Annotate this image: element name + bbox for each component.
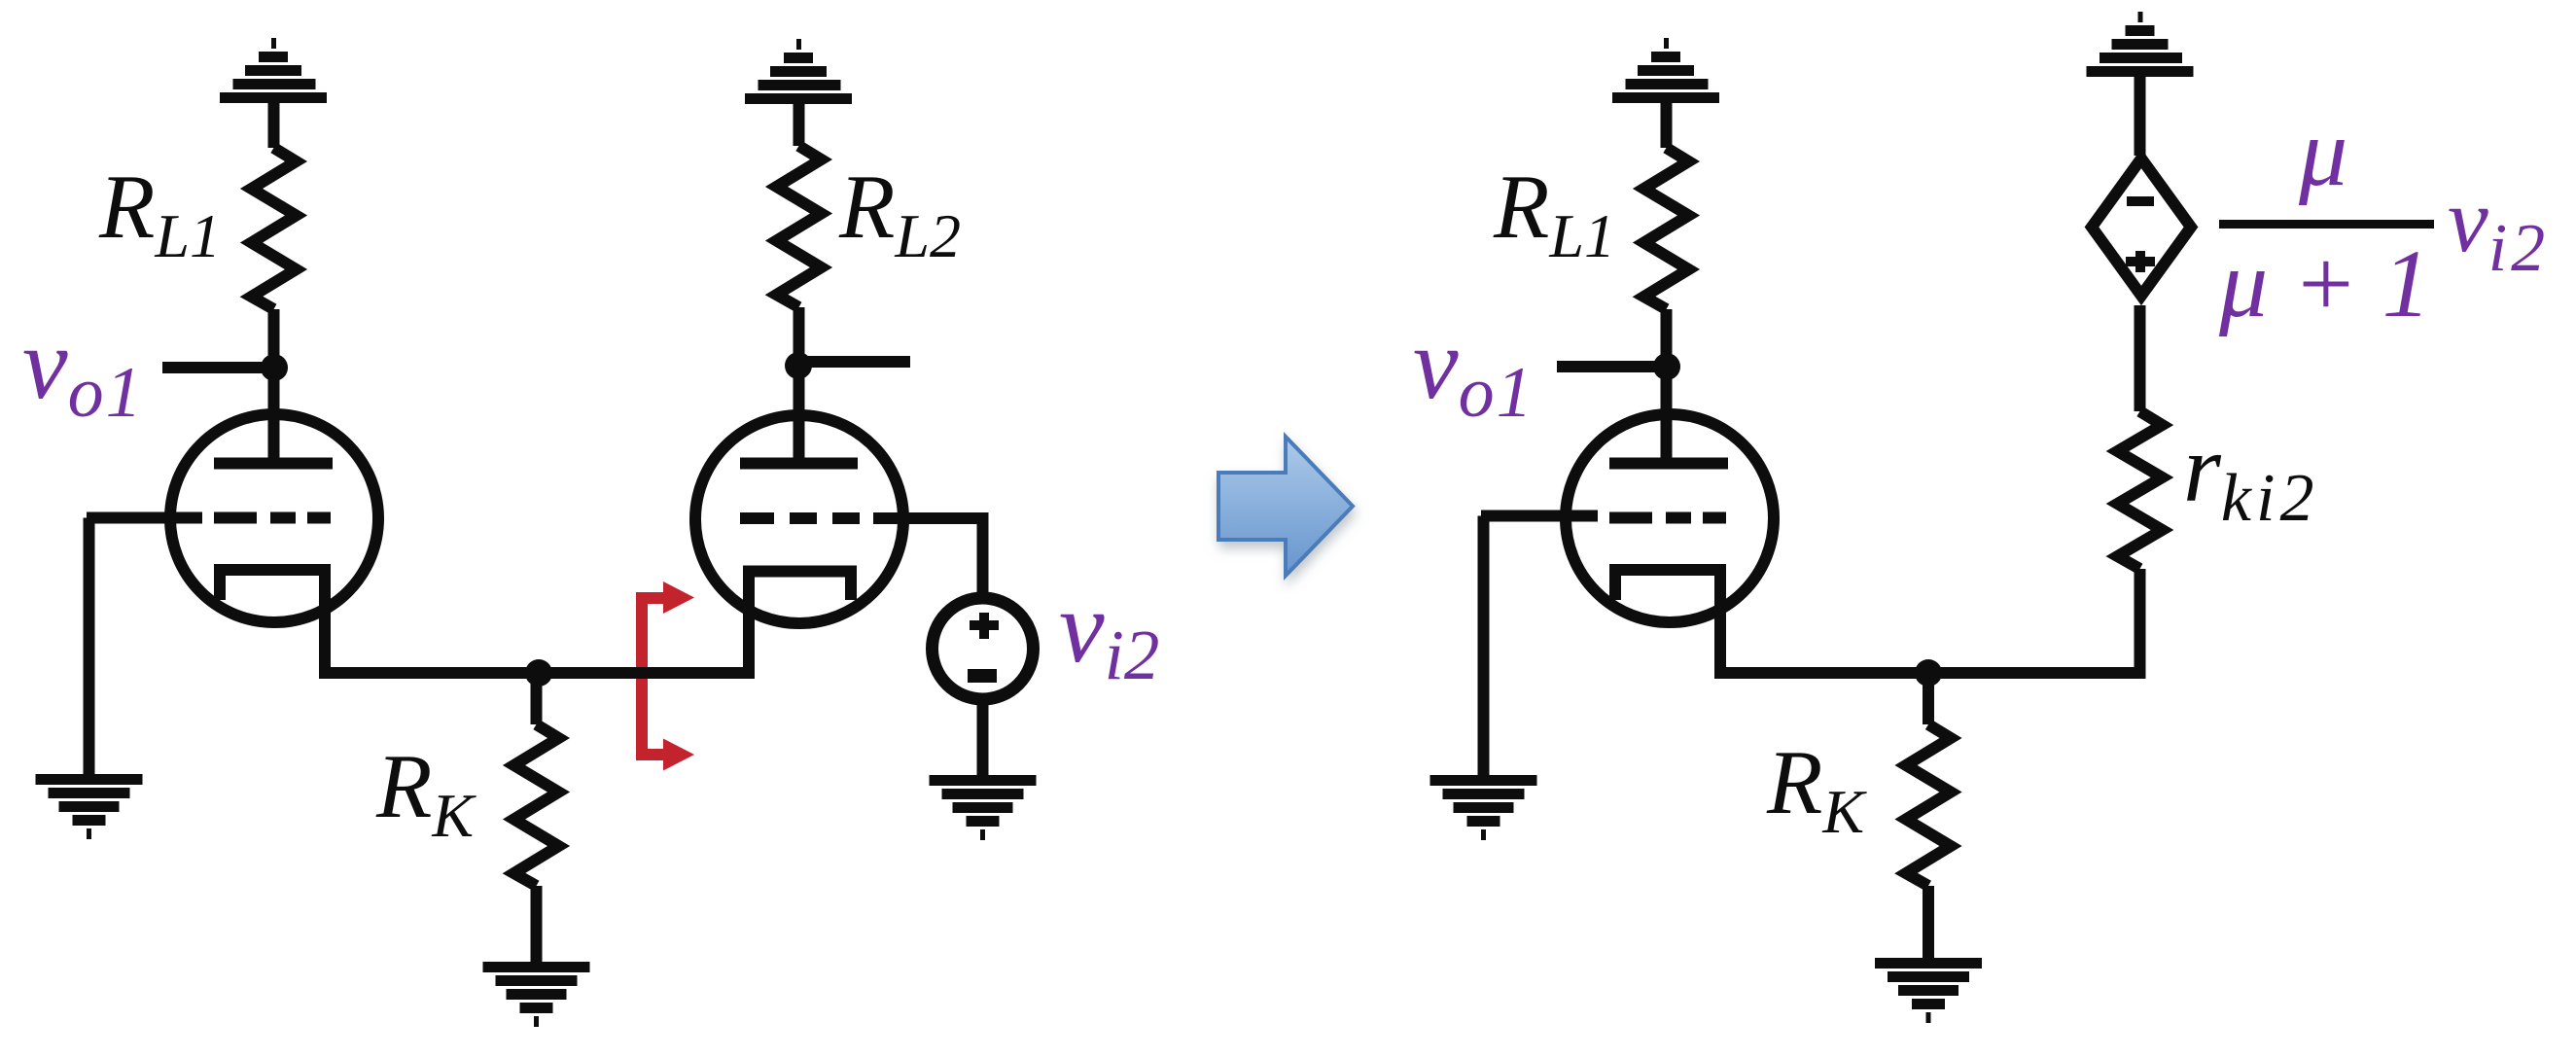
triode U1 cathode and wire to node K [220,570,755,673]
svg-text:vo1: vo1 [1413,306,1535,433]
svg-text:RK: RK [1766,732,1867,846]
dependent source E1 diamond [2092,159,2191,296]
power supply rail B+ (left tube 1) [220,38,327,103]
wire supply to RL1 [268,103,280,148]
triode U2 grid dashes [740,512,860,524]
ground (left grid) [36,774,143,839]
svg-text:RL2: RL2 [838,157,961,270]
triode U1 envelope [170,414,378,622]
fraction bar [2219,220,2434,229]
red arrowhead top [663,581,694,614]
source vi2 plus sign [970,613,999,639]
wire vi2 to ground [977,699,989,776]
triode U1' grid dashes [1609,512,1726,524]
power supply rail B+ (right circuit tube) [1612,38,1719,103]
power supply rail B+ (dependent source) [2087,12,2194,77]
resistor RK (left) [514,724,559,886]
ground (right grid) [1430,775,1537,840]
triode U1 plate bar [214,458,333,470]
triode U1 anode wire [268,368,280,464]
svg-text:μ + 1: μ + 1 [2218,229,2431,337]
wire supply to dependent source [2135,77,2146,156]
resistor rki2 [2118,411,2163,569]
triode U2 plate bar [740,458,858,470]
ground (below RK left) [483,962,590,1027]
source vi2 circle [933,598,1034,699]
red cut bracket [642,598,663,755]
wire diamond to rki2 [2135,305,2146,411]
wire RL1 to node vo1 [268,309,280,368]
wire vo1 stub (right) [1557,361,1667,372]
red arrowhead bottom [663,739,694,771]
node vo1 (left) [261,354,288,381]
wire RK to ground [531,886,543,963]
wire supply to RL2 [794,104,805,146]
triode U1' grid lead [1481,511,1598,522]
blue transform arrow [1218,437,1353,576]
svg-text:rki2: rki2 [2183,414,2318,536]
resistor RK (right) [1906,724,1951,886]
triode U2 anode wire [794,366,805,464]
resistor RL1 (right) [1644,148,1689,309]
svg-text:vo1: vo1 [22,306,144,433]
svg-text:RL1: RL1 [1493,157,1615,270]
node vo1 (right) [1653,353,1680,380]
wire RL2 to node [794,307,805,366]
triode U1' anode wire [1661,367,1673,464]
triode U1 grid lead [87,512,202,524]
resistor RL2 [777,146,822,307]
node anode 2 [785,352,812,379]
wire vo1 stub (left) [162,362,274,373]
dependent source plus sign [2126,251,2155,272]
resistor RL1 (left) [252,148,297,309]
svg-text:vi2: vi2 [1059,570,1159,694]
dependent source minus sign [2127,196,2154,206]
source vi2 minus sign [968,669,997,683]
triode U1' grid lead down to ground [1478,516,1490,777]
triode U2 cathode [749,572,851,674]
wire node K down to RK [531,673,543,724]
svg-text:RK: RK [375,736,476,850]
triode U1 grid lead down to ground [84,518,95,776]
triode U1' envelope [1566,414,1774,622]
wire stub right of node 2 [798,356,910,368]
triode U1' cathode and wire to node K' [1615,570,2140,673]
wire node K' down to RK (right) [1923,673,1934,724]
svg-text:RL1: RL1 [98,157,221,270]
wire supply to RL1 (right) [1661,103,1673,148]
triode U2 grid lead to vi2 source [873,518,983,597]
power supply rail B+ (tube 2) [745,39,852,104]
ground (below RK right) [1875,958,1982,1023]
node K (left) [525,659,552,687]
wire rki2 down and left to node K' [1928,569,2140,673]
svg-text:vi2: vi2 [2448,170,2549,286]
wire RL1 to node vo1 (right) [1661,309,1673,367]
triode U2 envelope [695,415,903,623]
triode U1' plate bar [1609,458,1728,470]
ground (below vi2) [930,775,1037,840]
wire RK to ground (right) [1923,886,1934,959]
node K' (right) [1915,659,1942,687]
svg-text:μ: μ [2298,98,2347,206]
triode U1 grid dashes [214,512,331,524]
